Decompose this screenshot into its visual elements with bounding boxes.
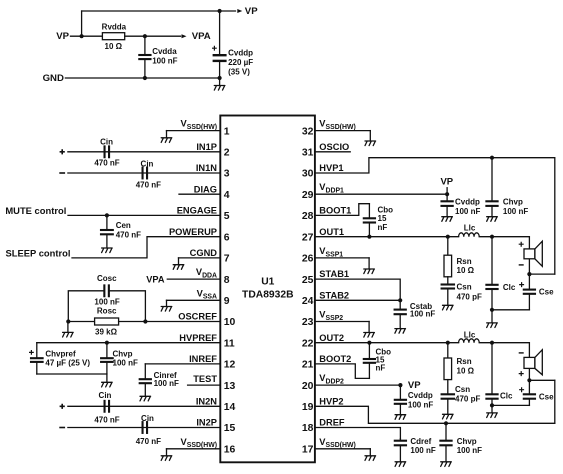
svg-text:BOOT2: BOOT2 xyxy=(319,354,351,364)
svg-text:STAB2: STAB2 xyxy=(319,290,349,300)
svg-text:VP: VP xyxy=(56,31,69,42)
svg-text:27: 27 xyxy=(302,232,314,243)
svg-text:Clc: Clc xyxy=(503,283,516,292)
svg-text:470 nF: 470 nF xyxy=(116,231,141,240)
svg-text:21: 21 xyxy=(302,360,314,371)
svg-text:VP: VP xyxy=(408,380,421,391)
svg-text:470 pF: 470 pF xyxy=(457,292,482,301)
svg-text:19: 19 xyxy=(302,402,314,413)
svg-text:13: 13 xyxy=(224,381,236,392)
svg-text:Cin: Cin xyxy=(100,137,113,146)
svg-text:(35 V): (35 V) xyxy=(228,68,250,77)
svg-text:IN1P: IN1P xyxy=(196,142,217,152)
svg-text:14: 14 xyxy=(224,402,236,413)
svg-text:TDA8932B: TDA8932B xyxy=(242,290,294,301)
svg-text:INREF: INREF xyxy=(189,354,217,364)
svg-text:30: 30 xyxy=(302,169,314,180)
svg-text:28: 28 xyxy=(302,211,314,222)
svg-text:OSCREF: OSCREF xyxy=(178,312,217,322)
svg-text:nF: nF xyxy=(378,223,388,232)
svg-text:470 pF: 470 pF xyxy=(455,395,480,404)
svg-text:Cdref: Cdref xyxy=(410,437,431,446)
svg-text:Cvddp: Cvddp xyxy=(455,197,480,206)
svg-text:Cse: Cse xyxy=(539,393,554,402)
svg-text:100 nF: 100 nF xyxy=(503,207,528,216)
svg-text:100 nF: 100 nF xyxy=(113,358,138,367)
svg-text:HVPREF: HVPREF xyxy=(179,333,217,343)
svg-text:VPA: VPA xyxy=(192,31,211,42)
svg-text:17: 17 xyxy=(302,445,314,456)
svg-text:470 nF: 470 nF xyxy=(94,158,119,167)
svg-text:32: 32 xyxy=(302,126,314,137)
svg-text:Csn: Csn xyxy=(455,385,470,394)
svg-text:2: 2 xyxy=(224,148,230,159)
svg-text:100 nF: 100 nF xyxy=(410,446,435,455)
svg-text:100 nF: 100 nF xyxy=(408,400,433,409)
svg-text:Cvdda: Cvdda xyxy=(152,47,177,56)
svg-text:10: 10 xyxy=(224,317,236,328)
svg-text:nF: nF xyxy=(376,364,386,373)
svg-text:Chvpref: Chvpref xyxy=(45,350,76,359)
svg-text:Cen: Cen xyxy=(116,221,131,230)
svg-text:CGND: CGND xyxy=(190,248,218,258)
svg-text:3: 3 xyxy=(224,169,230,180)
svg-text:HVP2: HVP2 xyxy=(319,396,343,406)
svg-text:100 nF: 100 nF xyxy=(455,207,480,216)
svg-text:4: 4 xyxy=(224,190,230,201)
svg-text:POWERUP: POWERUP xyxy=(169,227,217,237)
svg-text:Cvddp: Cvddp xyxy=(228,48,253,57)
svg-text:16: 16 xyxy=(224,445,236,456)
svg-text:23: 23 xyxy=(302,317,314,328)
svg-text:15: 15 xyxy=(378,214,387,223)
svg-text:Cin: Cin xyxy=(141,414,154,423)
svg-text:Cin: Cin xyxy=(141,160,154,169)
svg-text:8: 8 xyxy=(224,275,230,286)
svg-text:OUT2: OUT2 xyxy=(319,333,344,343)
svg-text:31: 31 xyxy=(302,148,314,159)
svg-text:15: 15 xyxy=(224,423,236,434)
svg-text:OSCIO: OSCIO xyxy=(319,142,349,152)
svg-text:220 µF: 220 µF xyxy=(228,58,253,67)
svg-text:Rosc: Rosc xyxy=(97,307,117,316)
svg-text:Chvp: Chvp xyxy=(457,437,477,446)
svg-text:100 nF: 100 nF xyxy=(154,379,179,388)
svg-text:9: 9 xyxy=(224,296,230,307)
svg-text:TEST: TEST xyxy=(193,374,217,384)
svg-text:BOOT1: BOOT1 xyxy=(319,206,351,216)
svg-text:Cse: Cse xyxy=(539,288,554,297)
svg-text:GND: GND xyxy=(43,73,64,84)
svg-text:MUTE control: MUTE control xyxy=(5,205,66,216)
svg-text:IN2P: IN2P xyxy=(196,418,217,428)
svg-text:47 µF (25 V): 47 µF (25 V) xyxy=(45,358,90,367)
svg-text:5: 5 xyxy=(224,211,230,222)
svg-text:DREF: DREF xyxy=(319,418,345,428)
svg-text:470 nF: 470 nF xyxy=(136,180,161,189)
svg-text:SLEEP control: SLEEP control xyxy=(6,248,71,259)
svg-text:Rsn: Rsn xyxy=(457,257,472,266)
svg-text:10 Ω: 10 Ω xyxy=(457,266,475,275)
svg-text:VPA: VPA xyxy=(146,274,165,284)
svg-text:Chvp: Chvp xyxy=(503,197,523,206)
svg-text:VP: VP xyxy=(440,177,453,188)
svg-text:12: 12 xyxy=(224,360,236,371)
svg-text:Chvp: Chvp xyxy=(113,350,133,359)
svg-text:OUT1: OUT1 xyxy=(319,227,344,237)
svg-text:Llc: Llc xyxy=(464,224,476,233)
svg-text:1: 1 xyxy=(224,126,230,137)
svg-text:Cin: Cin xyxy=(99,391,112,400)
svg-text:Clc: Clc xyxy=(500,391,513,400)
svg-text:11: 11 xyxy=(224,338,235,349)
svg-text:100 nF: 100 nF xyxy=(457,446,482,455)
svg-text:IN1N: IN1N xyxy=(196,163,217,173)
svg-text:Rvdda: Rvdda xyxy=(102,23,127,32)
svg-text:470 nF: 470 nF xyxy=(136,437,161,446)
svg-text:U1: U1 xyxy=(261,277,274,288)
svg-text:10 Ω: 10 Ω xyxy=(457,367,475,376)
svg-text:100 nF: 100 nF xyxy=(410,309,435,318)
svg-text:ENGAGE: ENGAGE xyxy=(177,206,217,216)
svg-text:100 nF: 100 nF xyxy=(94,298,119,307)
svg-text:DIAG: DIAG xyxy=(194,184,217,194)
svg-text:24: 24 xyxy=(302,296,314,307)
svg-text:IN2N: IN2N xyxy=(196,396,217,406)
svg-text:100 nF: 100 nF xyxy=(152,57,177,66)
svg-text:18: 18 xyxy=(302,423,314,434)
svg-text:STAB1: STAB1 xyxy=(319,269,349,279)
svg-text:26: 26 xyxy=(302,254,314,265)
svg-text:6: 6 xyxy=(224,232,230,243)
svg-text:Llc: Llc xyxy=(464,331,476,340)
svg-text:10 Ω: 10 Ω xyxy=(105,42,123,51)
svg-text:VP: VP xyxy=(245,6,258,17)
svg-text:Cosc: Cosc xyxy=(97,274,117,283)
svg-text:Rsn: Rsn xyxy=(457,357,472,366)
svg-text:470 nF: 470 nF xyxy=(94,416,119,425)
svg-text:22: 22 xyxy=(302,338,314,349)
svg-text:HVP1: HVP1 xyxy=(319,163,343,173)
svg-text:Cvddp: Cvddp xyxy=(408,391,433,400)
svg-text:29: 29 xyxy=(302,190,314,201)
svg-text:20: 20 xyxy=(302,381,314,392)
svg-text:25: 25 xyxy=(302,275,314,286)
svg-text:Csn: Csn xyxy=(457,282,472,291)
svg-text:7: 7 xyxy=(224,254,230,265)
svg-text:39 kΩ: 39 kΩ xyxy=(95,327,118,336)
